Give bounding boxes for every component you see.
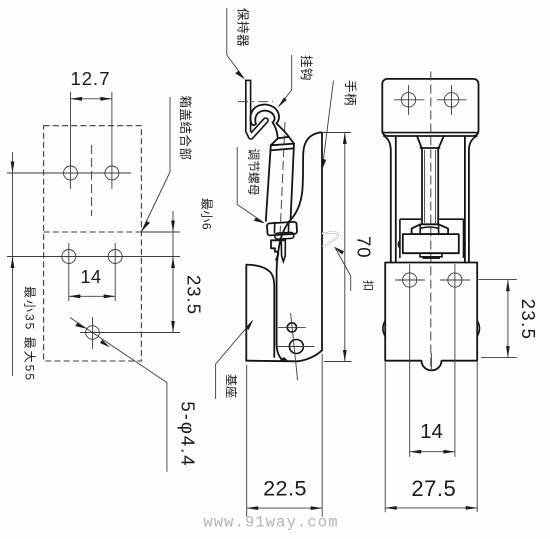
dim 23.5 right <box>479 279 517 281</box>
hole row1 right <box>105 166 119 180</box>
frame side tabs <box>398 241 465 249</box>
svg-text:扣: 扣 <box>362 280 376 291</box>
dim 70 <box>322 132 351 134</box>
center dashed axis <box>430 72 432 369</box>
foot plate <box>403 234 459 253</box>
grip plate <box>382 79 478 136</box>
handle front edge <box>277 133 320 361</box>
wire loop <box>322 232 338 246</box>
left leg <box>384 136 396 263</box>
svg-text:箱盖结合部: 箱盖结合部 <box>178 95 193 160</box>
row2 centerline <box>7 256 180 258</box>
foot bracket <box>271 240 284 259</box>
rubber pad <box>423 257 441 259</box>
inner frame <box>400 219 464 258</box>
svg-text:14: 14 <box>420 420 443 443</box>
barrel centerline <box>280 122 285 236</box>
svg-text:27.5: 27.5 <box>411 476 456 501</box>
nut facet lines <box>274 221 288 233</box>
base holes <box>403 273 417 287</box>
hook inner <box>255 111 278 139</box>
svg-text:基座: 基座 <box>224 374 239 398</box>
hook outer <box>250 105 288 137</box>
plate centerline <box>91 145 93 216</box>
middle view: side elevation <box>216 8 376 517</box>
hole row2 left <box>62 250 76 264</box>
hole row1 left <box>64 166 78 180</box>
left view: cover/base mounting plate (dashed) <box>7 68 214 472</box>
svg-text:5-φ4.4: 5-φ4.4 <box>178 401 199 467</box>
svg-text:挂钩: 挂钩 <box>299 55 313 81</box>
rod stub <box>417 136 444 149</box>
hole row2 right <box>108 250 122 264</box>
large hole <box>289 340 303 354</box>
svg-text:23.5: 23.5 <box>518 299 539 341</box>
retainer wire <box>248 81 251 137</box>
svg-text:www.91way.com: www.91way.com <box>203 514 338 532</box>
small hole <box>287 323 296 332</box>
bottom wedge tab <box>279 357 289 361</box>
hook tip cap <box>251 124 256 126</box>
lower strip <box>420 253 442 257</box>
dim 27.5 <box>385 507 477 509</box>
base box <box>385 263 477 371</box>
right dim line of left view <box>172 211 174 333</box>
loop leader + label <box>334 247 345 255</box>
svg-text:12.7: 12.7 <box>70 68 110 89</box>
joint dashed line <box>44 231 142 233</box>
hook centerline <box>238 101 273 103</box>
handle top edge + right edge <box>320 133 323 351</box>
svg-text:手柄: 手柄 <box>343 80 357 106</box>
dim 12.7 <box>71 98 112 100</box>
dashed plate outline <box>44 126 142 361</box>
dim 14 right <box>410 451 455 453</box>
svg-text:最小6: 最小6 <box>200 198 214 230</box>
body bottom edge <box>246 350 322 361</box>
adjusting nut <box>267 222 297 236</box>
dim min35 max55 <box>12 152 14 376</box>
base side bumps <box>383 321 480 337</box>
rod <box>422 149 438 225</box>
svg-text:14: 14 <box>80 267 101 287</box>
label 5-dia4.4 leader <box>70 318 167 383</box>
right view: front elevation <box>382 72 539 513</box>
rod pointed tip <box>281 239 285 262</box>
hole axes / ext lines down <box>409 264 411 457</box>
nut <box>412 224 449 234</box>
dim 22.5 <box>246 365 248 517</box>
svg-text:22.5: 22.5 <box>263 477 307 501</box>
svg-text:保持器: 保持器 <box>236 8 251 47</box>
svg-text:最小35 最大55: 最小35 最大55 <box>23 286 37 382</box>
svg-text:调节螺母: 调节螺母 <box>247 148 261 195</box>
body left edge + top arc <box>246 265 274 361</box>
hole 5 <box>86 326 100 340</box>
dim 14 <box>69 295 115 297</box>
svg-text:23.5: 23.5 <box>184 275 205 315</box>
shank to barrel chamfer <box>266 137 294 221</box>
row1 hole vertical centerlines / ext lines <box>70 92 72 189</box>
row1 centerline <box>7 172 131 174</box>
grip holes <box>401 93 415 107</box>
right leg <box>465 136 477 263</box>
row2 hole vertical centerlines <box>68 243 70 301</box>
collar under nut <box>275 232 294 239</box>
notch center tick <box>430 353 432 371</box>
svg-text:70: 70 <box>354 236 375 259</box>
